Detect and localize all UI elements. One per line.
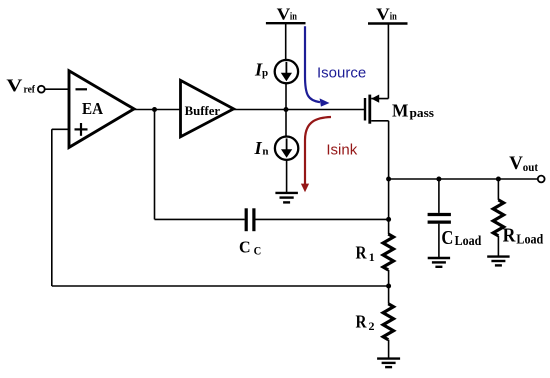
svg-text:in: in xyxy=(290,10,297,22)
node Vin left rail xyxy=(266,4,306,23)
arrow Isink (dark red) xyxy=(301,117,331,192)
wire Vin-left to Ip xyxy=(285,23,287,60)
junction EA-buffer node xyxy=(152,107,157,112)
svg-text:p: p xyxy=(262,67,268,79)
transistor Mpass xyxy=(365,95,389,124)
wire Ip to gate node xyxy=(285,83,287,110)
ground under R2 xyxy=(377,359,400,368)
ground under CLoad xyxy=(428,258,450,267)
junction feedback node xyxy=(386,284,391,289)
svg-text:Isource: Isource xyxy=(317,64,366,81)
node Vin right rail xyxy=(368,4,408,23)
svg-text:V: V xyxy=(376,4,390,23)
wire In to ground xyxy=(286,160,288,193)
junction RLoad node xyxy=(496,177,501,182)
label Ip xyxy=(254,59,268,79)
svg-text:2: 2 xyxy=(369,319,375,333)
wire gate line xyxy=(234,109,365,111)
svg-text:R: R xyxy=(503,226,517,247)
buffer U2 xyxy=(181,80,234,136)
capacitor CLoad xyxy=(428,215,482,249)
current source Ip xyxy=(275,60,298,83)
node Vout terminal xyxy=(509,154,544,182)
wire Cc left xyxy=(155,218,245,220)
svg-text:V: V xyxy=(6,76,22,96)
wire feedback bottom xyxy=(52,129,389,286)
svg-text:Load: Load xyxy=(455,233,482,248)
ground under RLoad xyxy=(487,257,509,266)
svg-text:out: out xyxy=(523,162,538,174)
resistor RLoad xyxy=(493,200,544,247)
svg-text:I: I xyxy=(253,138,262,158)
svg-text:R: R xyxy=(356,243,367,263)
wire RLoad bottom xyxy=(497,236,499,257)
arrow Isource (blue) xyxy=(305,26,330,106)
wire gate node to In xyxy=(285,110,287,137)
wire Cc right xyxy=(256,218,389,220)
junction Vout node xyxy=(386,177,391,182)
resistor R1 xyxy=(356,234,394,270)
label Mpass xyxy=(392,100,434,120)
capacitor Cc xyxy=(239,208,261,257)
resistor R2 xyxy=(356,304,394,340)
wire EA output to buffer xyxy=(134,109,181,111)
current source In xyxy=(275,137,298,160)
wire Vin-right to Mpass source xyxy=(387,24,389,99)
svg-text:V: V xyxy=(509,154,523,174)
wire RLoad top xyxy=(497,179,499,200)
wire Mpass drain down xyxy=(388,121,390,234)
svg-text:in: in xyxy=(390,10,397,22)
svg-text:C: C xyxy=(441,228,453,249)
wire R1 to R2 xyxy=(388,270,390,304)
svg-text:Load: Load xyxy=(516,232,543,247)
junction gate node xyxy=(284,107,289,112)
svg-text:1: 1 xyxy=(369,250,375,264)
svg-text:C: C xyxy=(254,246,262,258)
wire Vout line xyxy=(389,178,538,180)
svg-text:ref: ref xyxy=(24,84,36,96)
svg-text:Isink: Isink xyxy=(326,142,357,159)
wire Vref to EA minus xyxy=(45,88,69,90)
node Vref terminal xyxy=(6,76,44,96)
svg-text:M: M xyxy=(392,100,408,120)
svg-text:pass: pass xyxy=(410,105,435,120)
svg-text:V: V xyxy=(277,4,291,23)
wire EA plus input xyxy=(52,128,69,130)
svg-text:n: n xyxy=(262,146,268,158)
ground under In xyxy=(275,193,298,203)
junction Cc node xyxy=(386,217,391,222)
junction CLoad node xyxy=(436,177,441,182)
svg-text:R: R xyxy=(356,312,367,332)
op-amp EA xyxy=(69,71,134,148)
wire R2 to ground xyxy=(388,340,390,359)
wire Cc tap vertical xyxy=(154,110,156,220)
svg-text:Buffer: Buffer xyxy=(185,104,221,118)
wire CLoad bottom xyxy=(438,224,440,258)
label In xyxy=(253,138,268,158)
svg-text:EA: EA xyxy=(82,99,104,118)
wire CLoad top xyxy=(438,179,440,213)
svg-text:C: C xyxy=(239,237,251,256)
